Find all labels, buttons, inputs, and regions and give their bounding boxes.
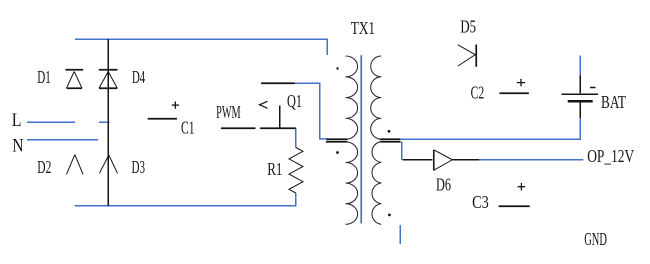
svg-text:C3: C3 bbox=[472, 192, 489, 212]
capacitor C2 bbox=[499, 92, 529, 94]
svg-text:C2: C2 bbox=[471, 82, 485, 102]
minus sign BAT bbox=[590, 87, 596, 89]
svg-text:BAT: BAT bbox=[601, 92, 626, 112]
diode D4 bbox=[99, 70, 118, 89]
wire top rail bbox=[75, 39, 327, 55]
svg-text:D2: D2 bbox=[37, 157, 51, 177]
wire secondary tap lower to D6 bbox=[401, 142, 403, 160]
diode D3 bbox=[99, 155, 117, 173]
svg-text:Q1: Q1 bbox=[287, 91, 302, 111]
wire Q1 drain to primary tap bbox=[295, 83, 328, 139]
polarity dot secondary bottom bbox=[388, 214, 391, 217]
transformer TX1 primary top winding bbox=[346, 56, 358, 139]
wire N line bbox=[27, 139, 98, 141]
primary tap double line bbox=[326, 139, 348, 142]
battery BAT bbox=[562, 75, 599, 118]
plus sign C2 bbox=[517, 79, 525, 87]
wire Q1 source to R1 bbox=[295, 128, 297, 148]
capacitor C3 bbox=[499, 205, 530, 207]
svg-text:GND: GND bbox=[584, 229, 607, 249]
svg-text:R1: R1 bbox=[267, 159, 282, 179]
capacitor C1 bbox=[148, 118, 177, 120]
wire battery top dangling bbox=[579, 56, 581, 76]
plus sign C1 bbox=[172, 102, 179, 109]
diode D2 bbox=[67, 155, 84, 175]
svg-text:L: L bbox=[12, 111, 22, 131]
wire secondary tap to battery bbox=[400, 118, 580, 139]
svg-text:C1: C1 bbox=[181, 118, 195, 138]
plus sign C3 bbox=[518, 183, 526, 191]
wire secondary bottom dangling bbox=[399, 225, 401, 244]
svg-text:D4: D4 bbox=[132, 67, 145, 87]
polarity dot primary top bbox=[336, 67, 338, 69]
diode D6 bbox=[403, 150, 480, 171]
svg-text:D1: D1 bbox=[37, 67, 51, 87]
wire PWM lead bbox=[221, 127, 256, 129]
wire L line segment 2 bbox=[99, 121, 110, 123]
svg-text:D5: D5 bbox=[460, 17, 476, 37]
svg-text:D6: D6 bbox=[436, 174, 451, 194]
resistor R1 bbox=[289, 148, 303, 194]
wire bottom rail bbox=[75, 193, 296, 206]
transformer TX1 primary bottom winding bbox=[346, 142, 358, 224]
diode D1 bbox=[65, 70, 83, 89]
transformer TX1 secondary top winding bbox=[371, 56, 382, 139]
wire OP_12V bbox=[479, 159, 583, 161]
polarity dot secondary top bbox=[388, 130, 391, 133]
svg-text:PWM: PWM bbox=[216, 102, 241, 122]
secondary tap double line bbox=[380, 139, 401, 142]
wire L line segment 1 bbox=[27, 121, 75, 123]
transistor Q1 bbox=[260, 83, 296, 128]
svg-text:OP_12V: OP_12V bbox=[587, 146, 634, 166]
diode D5 bbox=[458, 45, 476, 67]
svg-text:TX1: TX1 bbox=[351, 18, 375, 38]
polarity dot primary bottom bbox=[336, 151, 339, 154]
wire bridge center vertical bbox=[107, 39, 109, 206]
transformer TX1 secondary bottom winding bbox=[372, 142, 381, 225]
svg-text:D3: D3 bbox=[132, 157, 146, 177]
svg-text:N: N bbox=[12, 137, 23, 157]
transformer core bbox=[360, 55, 362, 223]
